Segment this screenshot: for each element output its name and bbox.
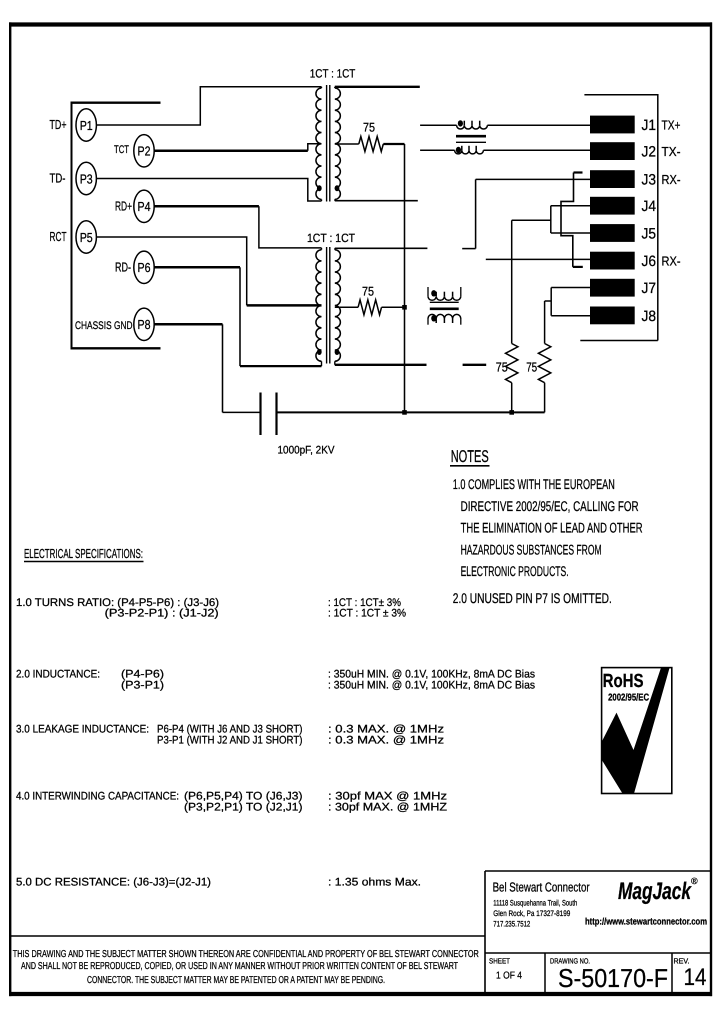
pad J8 xyxy=(590,307,635,325)
wire T2 secondary top (broken) xyxy=(335,247,428,249)
title block left line xyxy=(484,871,486,996)
resistor R1 75 ohm xyxy=(359,137,384,152)
pad J2 xyxy=(590,142,635,160)
resistor R4 75 ohm (vertical) xyxy=(538,344,550,383)
confidentiality box top line xyxy=(9,935,485,937)
svg-text:1 OF 4: 1 OF 4 xyxy=(496,971,522,982)
resistor R3 75 ohm (vertical) xyxy=(506,344,518,383)
title block divider sheet/drawing xyxy=(544,953,546,996)
svg-text:CONNECTOR. THE SUBJECT MATTER: CONNECTOR. THE SUBJECT MATTER MAY BE PAT… xyxy=(87,975,385,986)
wire P2 run xyxy=(154,150,308,153)
svg-text:P3-P1 (WITH J2 AND J1 SHORT): P3-P1 (WITH J2 AND J1 SHORT) xyxy=(157,735,303,747)
svg-text:: 1.35 ohms Max.: : 1.35 ohms Max. xyxy=(328,877,421,889)
svg-text:RD-: RD- xyxy=(115,259,131,274)
J block bracket top/right xyxy=(584,95,657,341)
svg-text:CHASSIS GND: CHASSIS GND xyxy=(75,320,133,332)
choke L1 bottom winding xyxy=(455,150,484,154)
wire J4-J5 tie vertical xyxy=(550,206,552,233)
pad J6 xyxy=(590,252,635,270)
choke L2 (floating symbol) xyxy=(427,287,429,296)
pin P2 xyxy=(134,135,154,167)
pin P1 xyxy=(76,109,96,141)
pin P6 xyxy=(134,251,154,283)
resistor R2 75 ohm xyxy=(358,300,381,315)
wire T1 secondary bottom (ends open) xyxy=(335,200,418,202)
RoHS checkmark xyxy=(602,668,670,794)
wire segment to J3 riser xyxy=(462,248,475,250)
choke L1 top phase dot xyxy=(458,120,463,126)
svg-text:TCT: TCT xyxy=(114,144,129,156)
svg-text:DIRECTIVE 2002/95/EC, CALLING: DIRECTIVE 2002/95/EC, CALLING FOR xyxy=(461,498,639,514)
pad J7 xyxy=(590,279,635,297)
choke L1 bottom phase dot xyxy=(456,147,461,153)
svg-text:J8: J8 xyxy=(642,308,657,325)
svg-text:ELECTRICAL SPECIFICATIONS:: ELECTRICAL SPECIFICATIONS: xyxy=(24,546,143,561)
svg-text:75: 75 xyxy=(496,360,508,375)
wire to J5 xyxy=(551,232,590,234)
T1 primary phase dot xyxy=(317,185,322,191)
transformer T1 secondary winding xyxy=(335,88,341,199)
svg-text:J1: J1 xyxy=(642,117,657,134)
svg-text:RCT: RCT xyxy=(50,229,67,244)
wire R3 riser vertical xyxy=(511,220,513,343)
wire P8 to capacitor C1 xyxy=(223,411,261,413)
wire vertical bus x404 xyxy=(404,144,406,412)
svg-text:RX-: RX- xyxy=(662,172,681,187)
ground bus horizontal xyxy=(277,411,545,413)
wire J3-J6 tie xyxy=(561,173,574,267)
svg-text:TD+: TD+ xyxy=(50,117,67,132)
svg-text:J6: J6 xyxy=(642,253,657,270)
underline NOTES xyxy=(450,465,490,467)
svg-text:(P3-P2-P1) : (J1-J2): (P3-P2-P1) : (J1-J2) xyxy=(105,608,219,620)
wire stub to choke L1 top-in xyxy=(420,124,457,126)
svg-text:TX+: TX+ xyxy=(662,117,681,132)
svg-text:THE ELIMINATION OF LEAD AND OT: THE ELIMINATION OF LEAD AND OTHER xyxy=(461,520,643,536)
svg-text:: 0.3 MAX. @ 1MHz: : 0.3 MAX. @ 1MHz xyxy=(328,735,444,747)
svg-text:5.0 DC RESISTANCE: (J6-J3)=(J2: 5.0 DC RESISTANCE: (J6-J3)=(J2-J1) xyxy=(16,877,211,889)
wire T1 secondary top (ends open) xyxy=(335,86,420,88)
pad J1 xyxy=(590,116,635,134)
svg-text:P6: P6 xyxy=(138,260,151,275)
svg-text:S-50170-F: S-50170-F xyxy=(558,963,668,993)
svg-text:J5: J5 xyxy=(642,225,657,242)
wire P1 to T1 primary top xyxy=(96,87,321,125)
svg-text:717.235.7512: 717.235.7512 xyxy=(493,920,530,929)
svg-text:HAZARDOUS SUBSTANCES FROM: HAZARDOUS SUBSTANCES FROM xyxy=(461,542,602,558)
wire T2 secondary bottom (broken) xyxy=(335,364,427,366)
wire P5 to T2 primary center tap xyxy=(247,304,322,307)
svg-text:P2: P2 xyxy=(138,144,151,159)
wire R2 to vertical bus xyxy=(382,306,405,308)
svg-text:2.0 UNUSED PIN P7 IS OMITTED.: 2.0 UNUSED PIN P7 IS OMITTED. xyxy=(453,590,612,606)
wire R3 to ground bus xyxy=(511,383,513,413)
wire P2 jog to T1 primary center tap xyxy=(308,144,322,151)
wire to J7 xyxy=(551,287,590,289)
wire P8 down to capacitor xyxy=(222,324,224,412)
connector bracket top stub xyxy=(71,102,161,104)
wire P5 run xyxy=(96,237,246,305)
svg-text:2002/95/EC: 2002/95/EC xyxy=(608,692,649,703)
svg-text:1.0 COMPLIES WITH THE EUROPEAN: 1.0 COMPLIES WITH THE EUROPEAN xyxy=(453,476,615,492)
svg-text:3.0 LEAKAGE INDUCTANCE:: 3.0 LEAKAGE INDUCTANCE: xyxy=(16,724,149,736)
choke L1 core xyxy=(456,135,486,138)
wire J3 tie stub xyxy=(574,171,583,173)
svg-text:(P3-P1): (P3-P1) xyxy=(121,680,164,692)
svg-text:75: 75 xyxy=(362,285,374,299)
svg-text:MagJack: MagJack xyxy=(618,878,692,905)
RoHS logo box xyxy=(602,668,672,794)
wire J7-J8 tie vertical xyxy=(550,288,552,316)
wire choke L1 to J2 xyxy=(483,149,590,151)
wire R4 riser vertical xyxy=(544,301,546,344)
wire to J3 xyxy=(476,178,590,180)
wire R4 to ground bus xyxy=(544,383,546,413)
svg-text:SHEET: SHEET xyxy=(489,957,510,966)
drawing border frame xyxy=(9,22,712,26)
wire P4 jog to T2 primary top xyxy=(259,206,322,248)
svg-text:1CT : 1CT: 1CT : 1CT xyxy=(310,67,356,81)
svg-text:J2: J2 xyxy=(642,144,657,161)
svg-text:: 1CT : 1CT ± 3%: : 1CT : 1CT ± 3% xyxy=(328,608,406,620)
svg-text:RX-: RX- xyxy=(662,254,681,269)
title block divider drawing/rev xyxy=(671,953,673,996)
pin P5 xyxy=(76,221,96,253)
transformer T2 secondary winding xyxy=(335,250,341,362)
transformer T2 primary winding xyxy=(316,250,322,362)
wire T2 secondary center tap to R2 xyxy=(335,306,358,308)
connector bracket bottom stub xyxy=(71,347,161,349)
wire segment T2 bottom right part xyxy=(463,364,487,366)
svg-text:1000pF, 2KV: 1000pF, 2KV xyxy=(278,445,336,457)
wire tie to R3 riser xyxy=(512,219,551,221)
wire P4 run xyxy=(154,205,259,208)
choke L1 top winding xyxy=(457,125,488,129)
transformer T1 core xyxy=(326,85,328,202)
svg-text:®: ® xyxy=(691,876,698,886)
wire tie to R4 riser xyxy=(545,300,552,302)
wire P6 to T2 primary bottom xyxy=(240,365,322,367)
wire P6 run xyxy=(154,266,240,269)
svg-text:P8: P8 xyxy=(138,317,151,332)
svg-text:P4: P4 xyxy=(138,199,151,214)
svg-text:P3: P3 xyxy=(80,171,93,186)
wire J3 riser vertical xyxy=(475,179,477,248)
wire P6 vertical xyxy=(239,267,241,366)
svg-text:: 30pf MAX. @ 1MHZ: : 30pf MAX. @ 1MHZ xyxy=(328,802,447,814)
pad J5 xyxy=(590,224,635,242)
svg-text:RD+: RD+ xyxy=(115,199,132,214)
svg-text:TX-: TX- xyxy=(662,144,681,159)
svg-text:1CT : 1CT: 1CT : 1CT xyxy=(307,231,356,245)
svg-text:AND SHALL NOT BE REPRODUCED, C: AND SHALL NOT BE REPRODUCED, COPIED, OR … xyxy=(21,961,458,972)
wire R1 to vertical bus xyxy=(383,143,404,145)
svg-text:75: 75 xyxy=(526,360,537,375)
junction bus/vertical x404 xyxy=(402,410,407,415)
wire J6 tie stub xyxy=(573,266,583,268)
connector P-side bracket vertical xyxy=(71,103,73,349)
junction R2/bus xyxy=(402,305,407,310)
J block bracket bottom xyxy=(580,340,658,342)
svg-text:THIS DRAWING AND THE SUBJECT M: THIS DRAWING AND THE SUBJECT MATTER SHOW… xyxy=(13,949,479,960)
svg-text:11118 Susquehanna Trail, South: 11118 Susquehanna Trail, South xyxy=(493,899,577,908)
wire choke L1 to J1 xyxy=(487,124,590,126)
svg-text:RoHS: RoHS xyxy=(603,671,644,692)
svg-text:J7: J7 xyxy=(642,280,657,297)
svg-text:ELECTRONIC PRODUCTS.: ELECTRONIC PRODUCTS. xyxy=(461,563,569,579)
pad J4 xyxy=(590,197,635,215)
T1 secondary phase dot xyxy=(335,185,340,191)
svg-text:75: 75 xyxy=(363,121,375,135)
wire to J8 xyxy=(551,315,590,317)
wire P3 to T1 primary bottom xyxy=(96,179,321,202)
svg-text:Glen Rock, Pa 17327-8199: Glen Rock, Pa 17327-8199 xyxy=(493,909,570,918)
svg-text:J4: J4 xyxy=(642,198,657,215)
transformer T2 core xyxy=(326,247,328,364)
svg-text:(P3,P2,P1) TO (J2,J1): (P3,P2,P1) TO (J2,J1) xyxy=(184,802,303,814)
T2 secondary phase dot xyxy=(335,349,340,355)
capacitor C1 1000pF 2KV xyxy=(259,393,261,436)
svg-text:http://www.stewartconnector.co: http://www.stewartconnector.com xyxy=(585,917,707,928)
svg-text:P5: P5 xyxy=(80,230,93,245)
transformer T1 primary winding xyxy=(316,88,322,199)
pad J3 xyxy=(590,170,635,188)
wire to J4 xyxy=(551,205,590,207)
underline heading xyxy=(24,561,144,563)
svg-text:NOTES: NOTES xyxy=(451,447,489,466)
wire P8 run xyxy=(154,323,222,326)
wire T1 secondary center tap to R1 xyxy=(335,143,359,145)
wire to J6 xyxy=(486,258,590,260)
svg-text:TD-: TD- xyxy=(50,171,66,186)
T2 primary phase dot xyxy=(317,349,322,355)
title block row divider xyxy=(485,952,711,954)
title block top line xyxy=(485,870,711,872)
svg-text:: 350uH MIN. @ 0.1V, 100KHz, 8: : 350uH MIN. @ 0.1V, 100KHz, 8mA DC Bias xyxy=(328,680,535,692)
svg-text:2.0 INDUCTANCE:: 2.0 INDUCTANCE: xyxy=(16,669,100,681)
svg-text:J3: J3 xyxy=(642,172,657,189)
svg-text:Bel Stewart Connector: Bel Stewart Connector xyxy=(493,880,590,895)
svg-text:P1: P1 xyxy=(80,118,93,133)
junction R3/bus xyxy=(509,410,514,415)
svg-text:14: 14 xyxy=(684,964,707,991)
pin P4 xyxy=(134,190,154,222)
pin P3 xyxy=(76,162,96,194)
svg-text:4.0 INTERWINDING CAPACITANCE:: 4.0 INTERWINDING CAPACITANCE: xyxy=(16,791,179,803)
wire stub to choke L1 bottom-in xyxy=(420,149,455,151)
pin P8 xyxy=(134,308,154,340)
